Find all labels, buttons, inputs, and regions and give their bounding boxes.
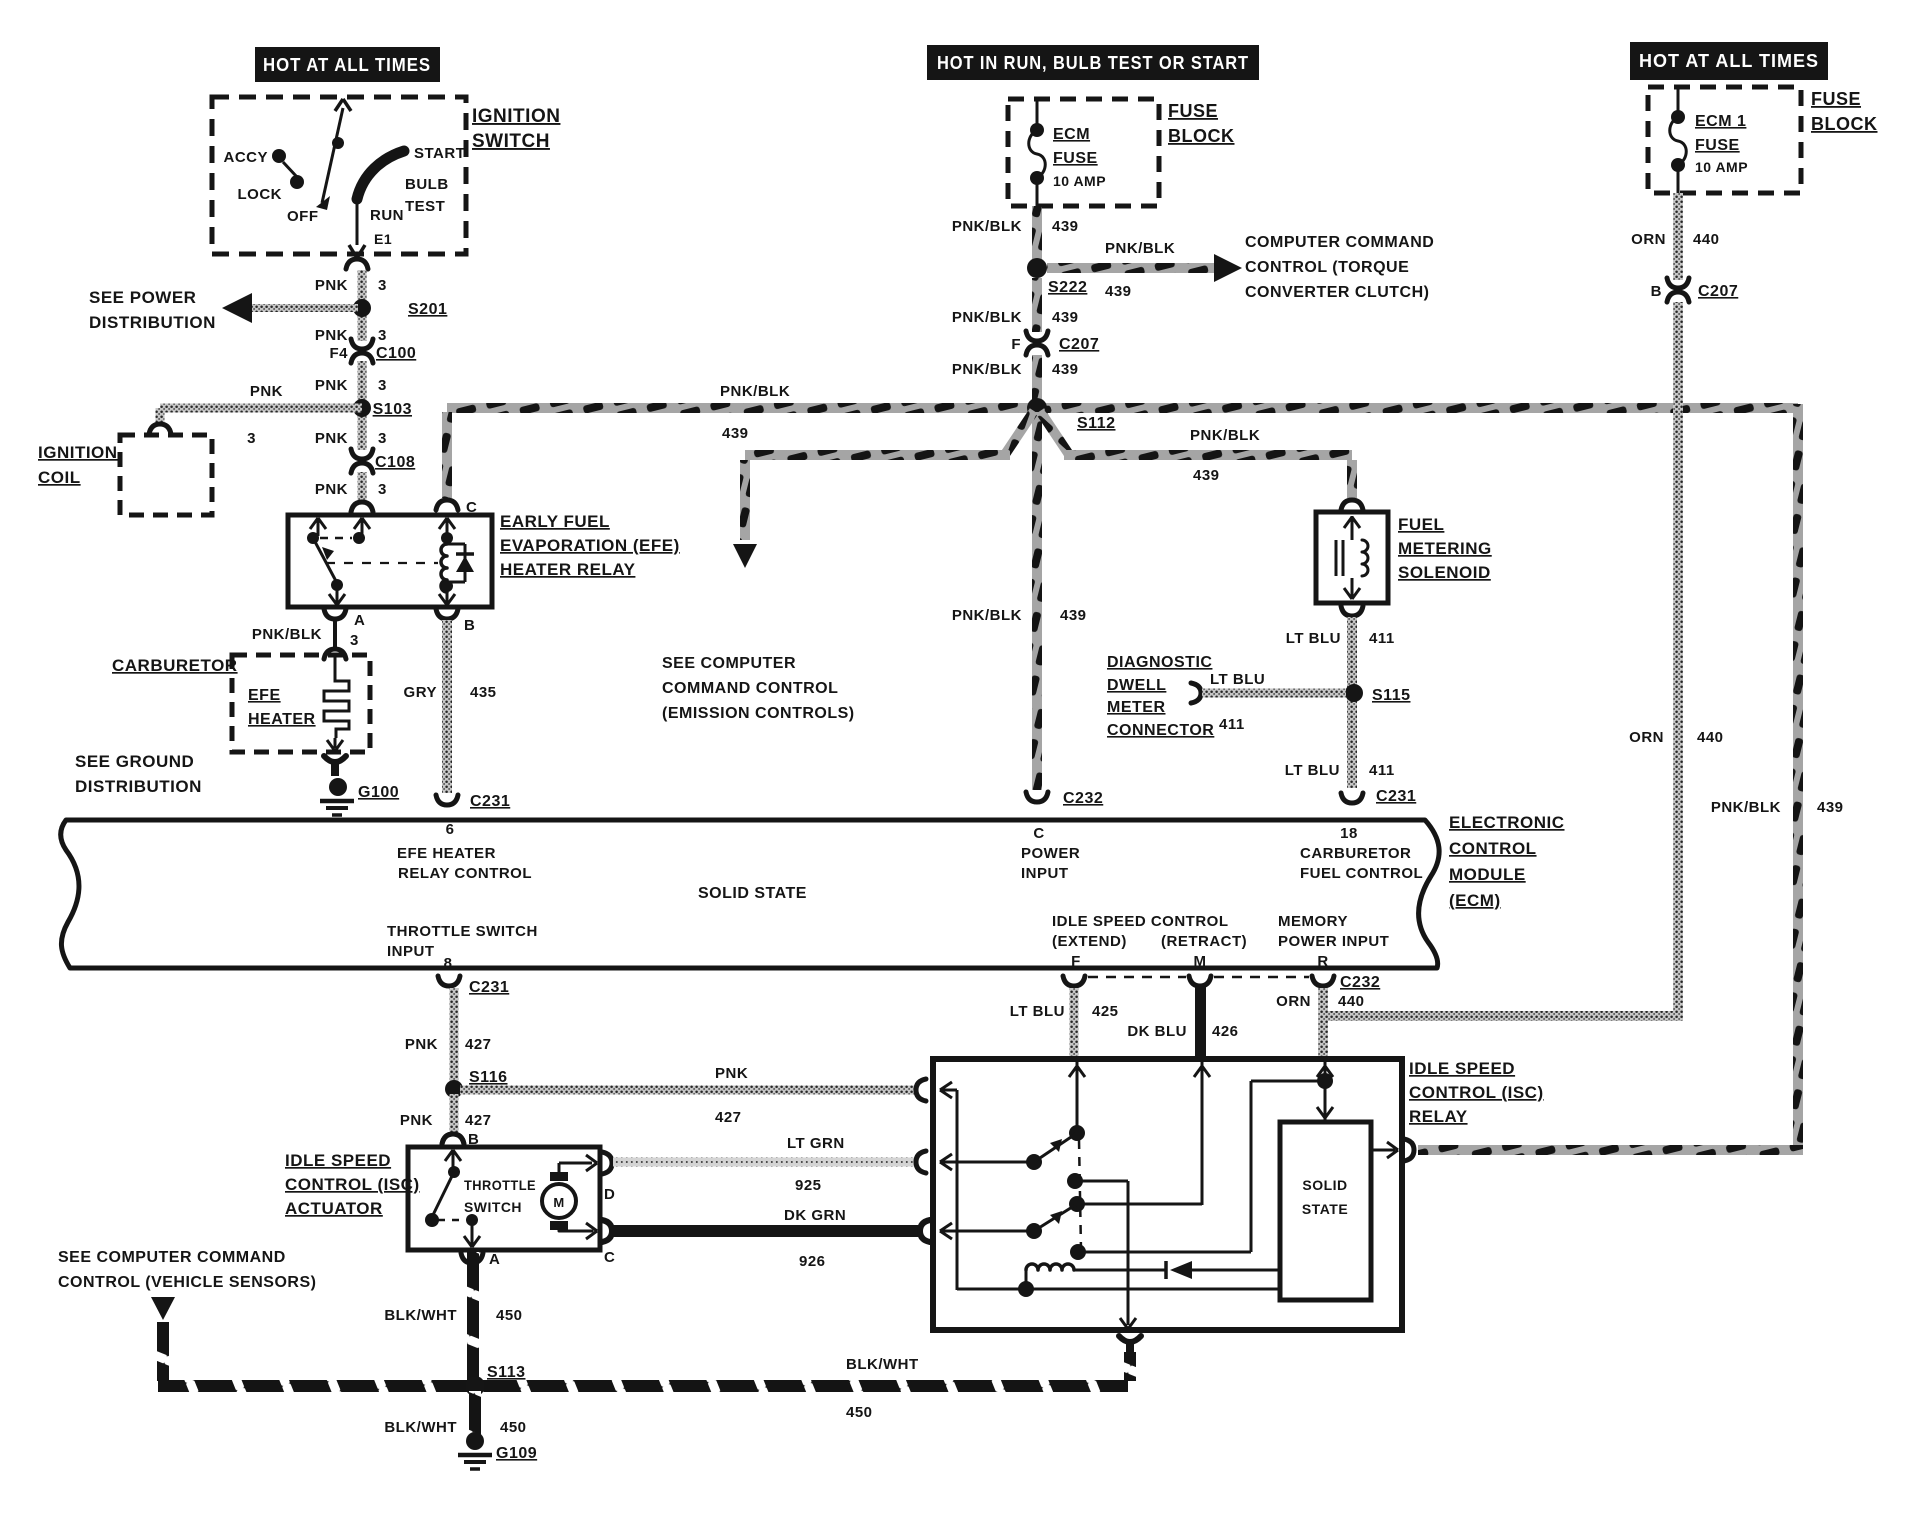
svg-text:C207: C207	[1698, 283, 1738, 300]
svg-text:S116: S116	[469, 1069, 507, 1086]
svg-text:SEE COMPUTER: SEE COMPUTER	[662, 655, 796, 672]
svg-text:426: 426	[1212, 1023, 1239, 1040]
svg-text:SWITCH: SWITCH	[464, 1199, 522, 1215]
svg-text:427: 427	[465, 1112, 492, 1129]
svg-text:B: B	[464, 617, 475, 634]
svg-text:3: 3	[378, 377, 387, 394]
svg-text:(RETRACT): (RETRACT)	[1161, 933, 1247, 950]
svg-text:CONVERTER CLUTCH): CONVERTER CLUTCH)	[1245, 284, 1430, 301]
svg-text:PNK/BLK: PNK/BLK	[1190, 427, 1260, 444]
svg-text:425: 425	[1092, 1003, 1119, 1020]
svg-text:TEST: TEST	[405, 198, 445, 215]
svg-text:RUN: RUN	[370, 207, 404, 224]
svg-text:FUSE: FUSE	[1053, 150, 1098, 167]
svg-text:926: 926	[799, 1253, 826, 1270]
svg-text:F: F	[1071, 953, 1081, 970]
svg-text:CONTROL: CONTROL	[1449, 839, 1537, 858]
svg-text:RELAY CONTROL: RELAY CONTROL	[398, 865, 532, 882]
svg-text:S222: S222	[1048, 279, 1087, 296]
svg-text:C: C	[604, 1249, 615, 1266]
svg-text:ACCY: ACCY	[223, 149, 268, 166]
svg-text:LT BLU: LT BLU	[1210, 671, 1265, 688]
svg-text:C100: C100	[376, 345, 416, 362]
svg-text:COMMAND CONTROL: COMMAND CONTROL	[662, 680, 838, 697]
svg-text:C232: C232	[1340, 974, 1380, 991]
svg-text:DIAGNOSTIC: DIAGNOSTIC	[1107, 654, 1212, 671]
svg-text:START: START	[414, 145, 465, 162]
svg-text:A: A	[354, 612, 365, 629]
svg-text:BLOCK: BLOCK	[1168, 126, 1235, 146]
svg-text:HOT IN RUN, BULB TEST OR STAR: HOT IN RUN, BULB TEST OR START	[937, 53, 1249, 73]
svg-text:C207: C207	[1059, 336, 1099, 353]
svg-text:FUSE: FUSE	[1811, 89, 1861, 109]
svg-text:3: 3	[350, 632, 359, 649]
svg-text:SEE COMPUTER COMMAND: SEE COMPUTER COMMAND	[58, 1249, 286, 1266]
svg-text:411: 411	[1369, 630, 1395, 647]
svg-text:PNK/BLK: PNK/BLK	[252, 626, 322, 643]
svg-text:E1: E1	[374, 231, 392, 247]
svg-text:ACTUATOR: ACTUATOR	[285, 1199, 383, 1218]
svg-text:450: 450	[496, 1307, 523, 1324]
svg-text:ECM: ECM	[1053, 126, 1090, 143]
svg-text:LT BLU: LT BLU	[1286, 630, 1341, 647]
svg-text:IDLE SPEED: IDLE SPEED	[285, 1151, 391, 1170]
svg-text:3: 3	[378, 277, 387, 294]
svg-text:DISTRIBUTION: DISTRIBUTION	[89, 313, 216, 332]
svg-text:DISTRIBUTION: DISTRIBUTION	[75, 777, 202, 796]
svg-text:SOLID: SOLID	[1302, 1177, 1347, 1193]
svg-text:ECM 1: ECM 1	[1695, 113, 1746, 130]
svg-text:C: C	[1033, 825, 1044, 842]
svg-text:COMPUTER COMMAND: COMPUTER COMMAND	[1245, 234, 1434, 251]
svg-text:M: M	[553, 1195, 564, 1210]
svg-text:BLK/WHT: BLK/WHT	[846, 1356, 919, 1373]
svg-text:PNK/BLK: PNK/BLK	[952, 309, 1022, 326]
svg-text:THROTTLE SWITCH: THROTTLE SWITCH	[387, 923, 538, 940]
svg-text:411: 411	[1369, 762, 1395, 779]
svg-text:SEE GROUND: SEE GROUND	[75, 752, 194, 771]
svg-text:S113: S113	[487, 1364, 525, 1381]
svg-text:440: 440	[1697, 729, 1724, 746]
svg-text:B: B	[1651, 283, 1662, 300]
svg-text:PNK: PNK	[315, 481, 348, 498]
svg-text:S103: S103	[373, 401, 412, 418]
svg-text:FUEL: FUEL	[1398, 515, 1444, 534]
svg-text:A: A	[489, 1251, 500, 1268]
svg-text:STATE: STATE	[1302, 1201, 1348, 1217]
svg-text:F4: F4	[329, 345, 348, 362]
svg-text:FUEL CONTROL: FUEL CONTROL	[1300, 865, 1423, 882]
svg-text:439: 439	[1052, 218, 1079, 235]
svg-text:3: 3	[378, 430, 387, 447]
svg-text:CONNECTOR: CONNECTOR	[1107, 722, 1214, 739]
svg-text:MODULE: MODULE	[1449, 865, 1526, 884]
svg-text:DWELL: DWELL	[1107, 677, 1166, 694]
svg-text:BLK/WHT: BLK/WHT	[384, 1419, 457, 1436]
svg-text:C231: C231	[470, 793, 510, 810]
svg-text:HOT AT ALL TIMES: HOT AT ALL TIMES	[1639, 51, 1819, 71]
svg-text:439: 439	[1193, 467, 1220, 484]
svg-text:PNK: PNK	[715, 1065, 748, 1082]
svg-text:PNK: PNK	[315, 430, 348, 447]
svg-text:DK BLU: DK BLU	[1127, 1023, 1187, 1040]
svg-text:C231: C231	[1376, 788, 1416, 805]
svg-text:PNK: PNK	[250, 383, 283, 400]
svg-text:F: F	[1011, 336, 1021, 353]
svg-text:POWER: POWER	[1021, 845, 1080, 862]
svg-text:439: 439	[1052, 361, 1079, 378]
svg-text:IGNITION: IGNITION	[472, 106, 560, 127]
svg-text:427: 427	[715, 1109, 742, 1126]
svg-text:ORN: ORN	[1631, 231, 1666, 248]
svg-text:EARLY FUEL: EARLY FUEL	[500, 512, 610, 531]
svg-text:OFF: OFF	[287, 208, 319, 225]
svg-text:INPUT: INPUT	[387, 943, 435, 960]
svg-text:METER: METER	[1107, 699, 1166, 716]
svg-text:PNK: PNK	[315, 327, 348, 344]
svg-text:PNK: PNK	[400, 1112, 433, 1129]
svg-text:439: 439	[1060, 607, 1087, 624]
svg-text:411: 411	[1219, 716, 1245, 733]
svg-text:HOT AT ALL TIMES: HOT AT ALL TIMES	[263, 55, 431, 75]
svg-text:CONTROL (TORQUE: CONTROL (TORQUE	[1245, 259, 1409, 276]
svg-text:LT GRN: LT GRN	[787, 1135, 845, 1152]
svg-text:(ECM): (ECM)	[1449, 891, 1501, 910]
svg-text:CARBURETOR: CARBURETOR	[112, 656, 238, 675]
svg-text:435: 435	[470, 684, 497, 701]
svg-text:CONTROL (VEHICLE SENSORS): CONTROL (VEHICLE SENSORS)	[58, 1274, 316, 1291]
svg-text:LT BLU: LT BLU	[1010, 1003, 1065, 1020]
svg-text:POWER INPUT: POWER INPUT	[1278, 933, 1389, 950]
svg-text:BULB: BULB	[405, 176, 449, 193]
svg-text:M: M	[1194, 953, 1207, 970]
svg-text:450: 450	[500, 1419, 527, 1436]
svg-text:10 AMP: 10 AMP	[1053, 173, 1106, 189]
svg-text:(EMISSION CONTROLS): (EMISSION CONTROLS)	[662, 705, 855, 722]
svg-text:GRY: GRY	[404, 684, 437, 701]
svg-text:PNK/BLK: PNK/BLK	[952, 607, 1022, 624]
svg-text:D: D	[604, 1186, 615, 1203]
svg-text:S115: S115	[1372, 687, 1410, 704]
svg-text:R: R	[1317, 953, 1328, 970]
svg-text:ORN: ORN	[1276, 993, 1311, 1010]
svg-text:EFE HEATER: EFE HEATER	[397, 845, 496, 862]
svg-text:6: 6	[446, 821, 455, 838]
svg-text:S201: S201	[408, 301, 447, 318]
svg-text:IDLE SPEED: IDLE SPEED	[1409, 1059, 1515, 1078]
svg-text:PNK: PNK	[405, 1036, 438, 1053]
svg-text:EFE: EFE	[248, 687, 281, 704]
svg-text:PNK/BLK: PNK/BLK	[952, 218, 1022, 235]
svg-text:MEMORY: MEMORY	[1278, 913, 1348, 930]
svg-text:PNK: PNK	[315, 377, 348, 394]
svg-text:PNK/BLK: PNK/BLK	[1105, 240, 1175, 257]
svg-text:SWITCH: SWITCH	[472, 131, 550, 152]
svg-text:S112: S112	[1077, 415, 1115, 432]
svg-text:CARBURETOR: CARBURETOR	[1300, 845, 1411, 862]
svg-text:C108: C108	[375, 454, 415, 471]
svg-text:SEE POWER: SEE POWER	[89, 288, 196, 307]
svg-text:C: C	[466, 499, 477, 516]
svg-text:C232: C232	[1063, 790, 1103, 807]
svg-text:8: 8	[444, 955, 453, 972]
svg-text:3: 3	[378, 481, 387, 498]
svg-text:3: 3	[247, 430, 256, 447]
svg-text:925: 925	[795, 1177, 822, 1194]
svg-text:G109: G109	[496, 1445, 537, 1462]
svg-text:THROTTLE: THROTTLE	[464, 1177, 536, 1193]
svg-text:FUSE: FUSE	[1695, 137, 1740, 154]
svg-text:439: 439	[1105, 283, 1132, 300]
svg-text:LOCK: LOCK	[238, 186, 283, 203]
svg-text:IDLE SPEED CONTROL: IDLE SPEED CONTROL	[1052, 913, 1229, 930]
svg-text:440: 440	[1693, 231, 1720, 248]
svg-text:INPUT: INPUT	[1021, 865, 1069, 882]
svg-text:DK GRN: DK GRN	[784, 1207, 846, 1224]
svg-text:FUSE: FUSE	[1168, 101, 1218, 121]
svg-text:SOLID STATE: SOLID STATE	[698, 885, 807, 902]
svg-text:ELECTRONIC: ELECTRONIC	[1449, 813, 1565, 832]
svg-text:BLOCK: BLOCK	[1811, 114, 1878, 134]
svg-text:PNK/BLK: PNK/BLK	[1711, 799, 1781, 816]
svg-text:IGNITION: IGNITION	[38, 443, 118, 462]
svg-text:439: 439	[1052, 309, 1079, 326]
svg-text:(EXTEND): (EXTEND)	[1052, 933, 1127, 950]
svg-text:G100: G100	[358, 784, 399, 801]
svg-text:ORN: ORN	[1629, 729, 1664, 746]
svg-text:18: 18	[1340, 825, 1358, 842]
svg-text:BLK/WHT: BLK/WHT	[384, 1307, 457, 1324]
svg-text:C231: C231	[469, 979, 509, 996]
svg-text:440: 440	[1338, 993, 1365, 1010]
svg-text:427: 427	[465, 1036, 492, 1053]
svg-text:LT BLU: LT BLU	[1285, 762, 1340, 779]
svg-text:439: 439	[722, 425, 749, 442]
svg-text:PNK: PNK	[315, 277, 348, 294]
svg-text:3: 3	[378, 327, 387, 344]
svg-text:450: 450	[846, 1404, 873, 1421]
svg-text:10 AMP: 10 AMP	[1695, 159, 1748, 175]
svg-text:RELAY: RELAY	[1409, 1107, 1468, 1126]
svg-text:COIL: COIL	[38, 468, 81, 487]
svg-text:PNK/BLK: PNK/BLK	[720, 383, 790, 400]
svg-text:METERING: METERING	[1398, 539, 1492, 558]
svg-text:HEATER: HEATER	[248, 711, 316, 728]
svg-text:PNK/BLK: PNK/BLK	[952, 361, 1022, 378]
svg-text:CONTROL (ISC): CONTROL (ISC)	[1409, 1083, 1544, 1102]
svg-text:HEATER RELAY: HEATER RELAY	[500, 560, 636, 579]
svg-text:CONTROL (ISC): CONTROL (ISC)	[285, 1175, 420, 1194]
svg-text:SOLENOID: SOLENOID	[1398, 563, 1491, 582]
svg-text:439: 439	[1817, 799, 1844, 816]
svg-text:EVAPORATION (EFE): EVAPORATION (EFE)	[500, 536, 680, 555]
